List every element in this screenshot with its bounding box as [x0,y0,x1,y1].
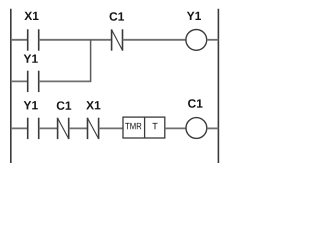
contact C1 (normally closed, rung2) [58,118,69,139]
contact Y1 (normally open, parallel branch) [28,71,39,92]
label X1 [24,12,32,20]
wire rung1: C1 to coil Y1 [123,39,186,41]
contact Y1 (normally open, rung2) [28,118,39,139]
contact C1 (normally closed) [112,29,123,50]
label X1 (rung2) [86,101,94,109]
label Y1 (rung2) [24,101,32,109]
label Y1 (branch) [24,55,32,63]
wire junction vertical [90,40,92,82]
wire branch: Y1 to junction [39,80,91,82]
timer TMR T box [123,117,165,138]
wire rung1: X1 to C1 contact [39,39,112,41]
wire rung2: timer to coil C1 [165,127,186,129]
wire rung2: C1 to X1 [69,127,88,129]
wire rung2: coil to right rail [207,127,219,129]
contact X1 (normally closed, rung2) [88,118,99,139]
label Y1 (coil) [187,12,195,20]
wire rung1: left rail to X1 contact [11,39,28,41]
label C1 (rung2) [57,101,65,109]
label C1 [110,12,118,20]
right power rail [217,9,219,163]
coil C1 [186,118,207,139]
contact X1 (normally open) [28,29,39,50]
wire rung2: X1 to timer box [99,127,123,129]
wire rung2: Y1 to C1 [39,127,58,129]
label C1 (coil) [188,99,196,107]
coil Y1 [186,30,207,51]
wire rung2: left rail to Y1 contact [11,127,28,129]
wire rung1: coil to right rail [207,39,219,41]
left power rail [10,9,12,163]
wire branch: left rail to Y1 contact [11,80,28,82]
